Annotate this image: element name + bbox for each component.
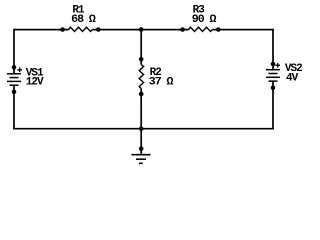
plus sign VS1: [17, 68, 22, 73]
node: VS2 positive terminal dot: [271, 62, 276, 67]
svg-text:4V: 4V: [286, 72, 299, 84]
wire ground stem: [140, 129, 142, 155]
ground symbol: [132, 155, 151, 164]
node: VS1 negative terminal dot: [12, 89, 17, 94]
wire right rail lower (VS2 bottom plate to bottom corner): [272, 81, 274, 129]
svg-text:68 Ω: 68 Ω: [71, 14, 96, 26]
wire bottom rail: [13, 128, 274, 130]
node: R1 pin 1 junction dot: [60, 27, 65, 32]
resistor R3 zigzag: [189, 27, 213, 31]
battery VS2 plates: [266, 70, 280, 81]
wire right rail upper (top corner to VS2 top plate): [272, 29, 274, 70]
node: VS2 negative terminal dot: [271, 85, 276, 90]
node: R3 pin 2 junction dot: [216, 27, 221, 32]
node: bottom rail T-junction dot: [139, 126, 144, 131]
wire left rail lower (VS1 bottom plate to bottom corner): [13, 85, 15, 129]
wire top rail middle segment: [93, 29, 189, 31]
svg-text:90 Ω: 90 Ω: [192, 14, 217, 26]
node: R1 pin 2 junction dot: [96, 27, 101, 32]
node: ground connection dot: [139, 146, 144, 151]
wire top rail right segment: [213, 29, 274, 31]
wire top rail left segment: [14, 29, 69, 31]
svg-text:37 Ω: 37 Ω: [149, 76, 174, 88]
resistor R1 zigzag: [69, 27, 93, 31]
node: top center T-junction dot: [139, 27, 144, 32]
wire left rail upper (top corner to VS1 top plate): [13, 29, 15, 74]
battery VS1 plates: [7, 74, 21, 85]
node: VS1 positive terminal dot: [12, 65, 17, 70]
wire middle rail upper (top rail to R2): [140, 30, 142, 65]
resistor R2 zigzag: [139, 65, 143, 89]
node: R2 pin 2 junction dot: [139, 92, 144, 97]
node: R3 pin 1 junction dot: [180, 27, 185, 32]
node: R2 pin 1 junction dot: [139, 57, 144, 62]
wire middle rail lower (R2 to bottom rail): [140, 89, 142, 129]
plus sign VS2: [275, 63, 280, 68]
svg-text:12V: 12V: [26, 77, 44, 89]
